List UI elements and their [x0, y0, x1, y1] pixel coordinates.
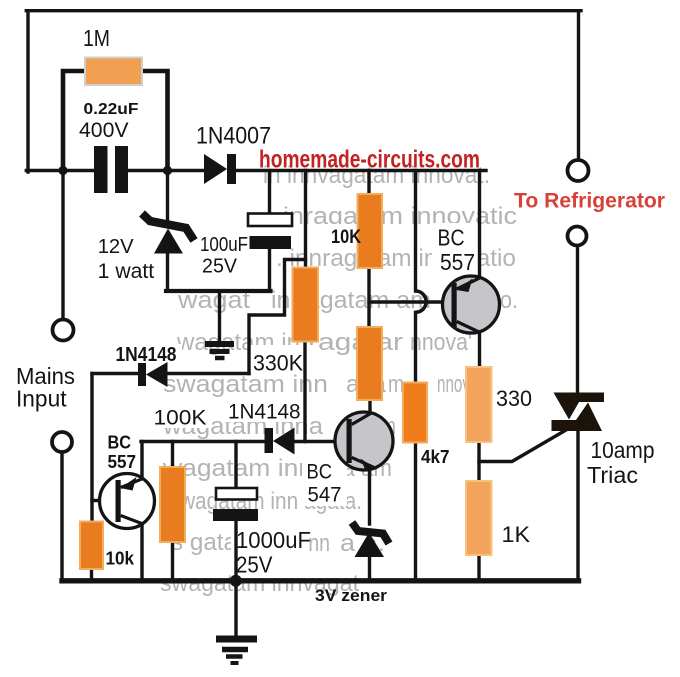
svg-text:100uF: 100uF — [200, 234, 248, 256]
svg-text:100K: 100K — [154, 406, 208, 430]
svg-text:1 watt: 1 watt — [98, 260, 155, 283]
svg-text:inragatam innovatic: inragatam innovatic — [283, 203, 517, 230]
svg-text:BC: BC — [438, 225, 465, 251]
svg-text:12V: 12V — [98, 235, 134, 258]
svg-text:m: m — [388, 371, 404, 398]
svg-text:BC: BC — [108, 433, 132, 453]
svg-text:1K: 1K — [502, 522, 531, 547]
svg-text:3V zener: 3V zener — [315, 586, 387, 605]
svg-text:557: 557 — [440, 249, 475, 275]
svg-text:homemade-circuits.com: homemade-circuits.com — [259, 146, 480, 174]
svg-text:330: 330 — [496, 386, 532, 411]
svg-text:10amp: 10amp — [591, 437, 655, 463]
svg-text:Input: Input — [16, 386, 67, 412]
svg-text:To Refrigerator: To Refrigerator — [514, 188, 665, 212]
svg-text:330K: 330K — [253, 351, 303, 376]
svg-text:4k7: 4k7 — [421, 447, 450, 467]
svg-text:o.: o. — [500, 287, 518, 314]
svg-text:raga ar: raga ar — [308, 329, 403, 356]
svg-text:BC: BC — [307, 460, 333, 484]
svg-text:400V: 400V — [79, 118, 129, 142]
svg-text:10K: 10K — [331, 227, 361, 248]
svg-text:Triac: Triac — [587, 462, 638, 488]
svg-text:557: 557 — [108, 452, 137, 472]
svg-text:547: 547 — [308, 483, 342, 507]
svg-text:0.22uF: 0.22uF — [84, 101, 139, 118]
svg-text:1000uF: 1000uF — [236, 527, 311, 553]
svg-text:25V: 25V — [202, 256, 238, 278]
svg-text:1M: 1M — [83, 25, 110, 51]
svg-text:1N4148: 1N4148 — [228, 400, 301, 424]
svg-text:10k: 10k — [106, 549, 135, 569]
svg-text:1N4148: 1N4148 — [116, 344, 177, 366]
svg-text:25V: 25V — [236, 552, 273, 578]
